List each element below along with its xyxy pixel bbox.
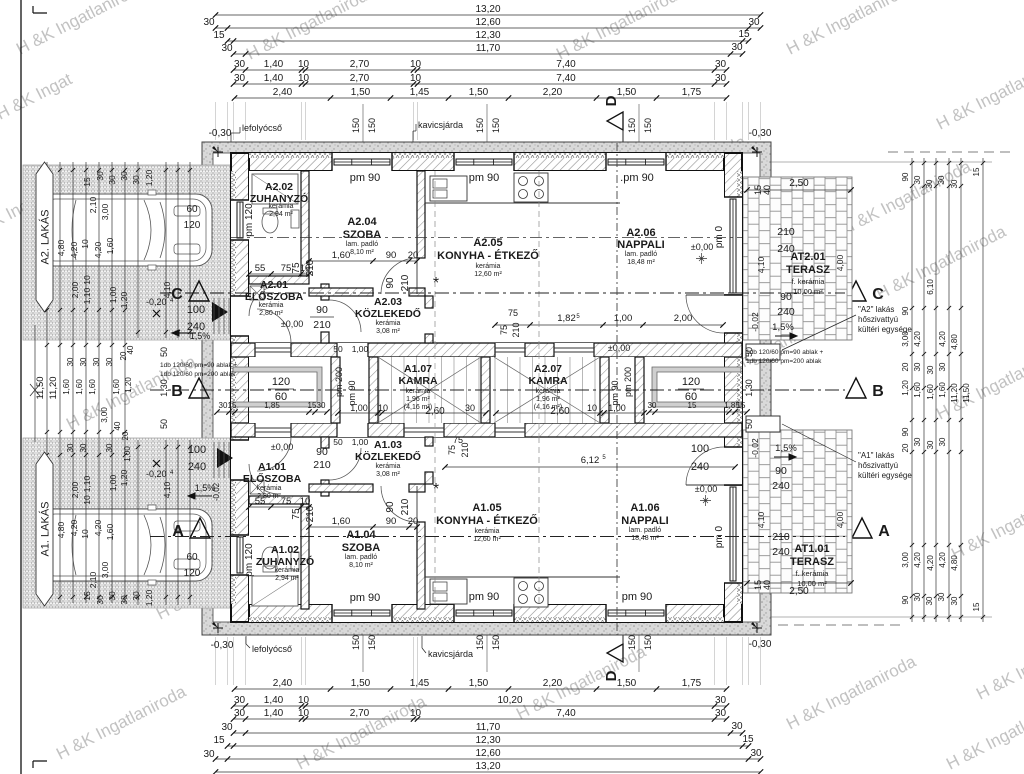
svg-text:1db 120/60 pm=200 ablak: 1db 120/60 pm=200 ablak	[160, 371, 236, 378]
svg-text:90: 90	[901, 172, 910, 181]
svg-text:40: 40	[113, 421, 122, 430]
svg-text:4,00: 4,00	[835, 254, 845, 271]
svg-text:1db 120/60 pm=90 ablak +: 1db 120/60 pm=90 ablak +	[746, 349, 824, 356]
svg-text:1,60: 1,60	[62, 379, 71, 395]
svg-text:90: 90	[386, 250, 397, 261]
svg-text:KONYHA - ÉTKEZŐ: KONYHA - ÉTKEZŐ	[437, 249, 539, 262]
svg-text:30: 30	[926, 365, 935, 374]
svg-text:10: 10	[300, 496, 311, 507]
svg-text:A1.02: A1.02	[271, 544, 299, 556]
svg-text:150: 150	[475, 118, 485, 133]
svg-text:f. kerámia: f. kerámia	[792, 277, 826, 286]
svg-text:13,20: 13,20	[475, 761, 500, 772]
svg-text:240: 240	[777, 306, 795, 318]
svg-text:15: 15	[688, 401, 697, 410]
svg-text:4,20: 4,20	[69, 519, 79, 536]
east niche	[652, 367, 741, 407]
svg-text:4,20: 4,20	[913, 552, 922, 568]
svg-text:12,60: 12,60	[475, 748, 500, 759]
svg-text:20: 20	[901, 362, 910, 371]
svg-text:150: 150	[491, 635, 501, 650]
svg-text:100: 100	[187, 304, 205, 316]
svg-text:120: 120	[184, 220, 201, 231]
car upper	[36, 190, 212, 270]
sink A1	[430, 579, 467, 604]
svg-text:240: 240	[188, 461, 206, 473]
svg-text:-0,02: -0,02	[750, 312, 760, 332]
svg-text:30: 30	[913, 437, 922, 446]
svg-text:1,00: 1,00	[123, 446, 132, 462]
svg-text:30: 30	[913, 362, 922, 371]
svg-text:1,40: 1,40	[264, 59, 284, 70]
svg-text:6,10: 6,10	[926, 279, 935, 295]
svg-text:1,40: 1,40	[264, 708, 284, 719]
svg-text:90: 90	[386, 516, 397, 527]
svg-text:30: 30	[937, 592, 946, 601]
A1 inner dims	[309, 526, 417, 528]
west niche (entry recess)	[233, 367, 322, 407]
svg-text:120: 120	[184, 568, 201, 579]
svg-text:3,00: 3,00	[100, 407, 109, 423]
svg-text:30: 30	[317, 401, 326, 410]
svg-text:1,40: 1,40	[264, 695, 284, 706]
svg-text:12,60 m²: 12,60 m²	[474, 271, 502, 278]
svg-text:30: 30	[715, 695, 727, 706]
svg-text:210: 210	[305, 505, 316, 522]
svg-text:30: 30	[938, 362, 947, 371]
svg-text:D: D	[603, 95, 620, 106]
svg-text:1,00: 1,00	[352, 437, 369, 447]
svg-text:30: 30	[203, 17, 215, 28]
svg-text:1,82: 1,82	[557, 313, 576, 324]
svg-text:3,08 m²: 3,08 m²	[376, 471, 400, 478]
svg-text:C: C	[171, 286, 183, 303]
svg-text:10: 10	[298, 708, 310, 719]
svg-text:100: 100	[691, 443, 709, 455]
svg-text:90: 90	[316, 304, 328, 316]
svg-text:12,30: 12,30	[475, 735, 500, 746]
section markers right	[846, 281, 866, 301]
svg-text:1,20: 1,20	[144, 169, 154, 186]
svg-text:1,60: 1,60	[332, 516, 351, 527]
insulation layer strips	[249, 153, 724, 158]
section line B-B	[150, 389, 845, 391]
svg-text:KAMRA: KAMRA	[398, 375, 437, 387]
svg-text:1,60: 1,60	[88, 379, 97, 395]
svg-text:A1.03: A1.03	[374, 439, 402, 451]
svg-text:1,00: 1,00	[352, 344, 369, 354]
svg-text:4,20: 4,20	[913, 331, 922, 347]
A1. LAKAS label	[36, 452, 53, 606]
sink A2	[430, 176, 467, 201]
svg-text:60: 60	[186, 204, 198, 215]
right dimension columns	[911, 158, 913, 622]
washing machine A1	[250, 480, 264, 494]
top wall windows	[332, 153, 392, 171]
svg-text:A1.04: A1.04	[346, 529, 376, 541]
svg-text:30: 30	[731, 42, 743, 53]
svg-text:2,20: 2,20	[543, 87, 563, 98]
terrace AT2.01	[743, 177, 852, 340]
svg-text:10: 10	[410, 59, 422, 70]
svg-text:1,60: 1,60	[105, 523, 115, 540]
svg-text:90: 90	[385, 501, 396, 513]
svg-text:150: 150	[351, 635, 361, 650]
svg-text:15: 15	[213, 735, 225, 746]
svg-text:120: 120	[682, 376, 700, 388]
svg-text:12,60 m²: 12,60 m²	[473, 536, 501, 543]
strip dims	[217, 411, 327, 413]
extension lines bottom	[215, 637, 217, 685]
svg-text:3,08 m²: 3,08 m²	[376, 328, 400, 335]
top dimension chains	[216, 14, 761, 16]
A2. LAKAS label	[36, 162, 53, 312]
svg-text:1,96 m²: 1,96 m²	[536, 396, 560, 403]
svg-text:A1.06: A1.06	[630, 502, 659, 514]
svg-text:1,20: 1,20	[124, 377, 133, 393]
svg-text:15: 15	[972, 167, 981, 176]
svg-text:120: 120	[272, 376, 290, 388]
svg-text:1,30: 1,30	[159, 379, 169, 397]
A2 bath fixtures	[252, 174, 298, 204]
svg-text:A1.07: A1.07	[404, 363, 432, 375]
svg-text:pm 90: pm 90	[350, 592, 381, 604]
svg-text:13,20: 13,20	[475, 4, 500, 15]
svg-text:1,10: 1,10	[82, 287, 92, 304]
svg-text:30: 30	[234, 59, 246, 70]
svg-text:7,40: 7,40	[556, 59, 576, 70]
svg-text:10: 10	[82, 495, 92, 505]
right extension lines	[770, 161, 992, 163]
svg-text:2,50: 2,50	[789, 586, 809, 597]
svg-text:A2.05: A2.05	[473, 237, 502, 249]
svg-text:15: 15	[738, 29, 750, 40]
svg-text:1,75: 1,75	[682, 678, 702, 689]
svg-text:-0,30: -0,30	[749, 639, 772, 650]
svg-text:30: 30	[715, 708, 727, 719]
svg-text:240: 240	[772, 480, 790, 492]
svg-text:50: 50	[744, 419, 754, 429]
svg-text:±0,00: ±0,00	[691, 242, 713, 252]
svg-text:210: 210	[305, 259, 316, 276]
kamra A2.07 stairs	[494, 357, 496, 423]
svg-text:15: 15	[737, 401, 746, 410]
svg-text:1,20: 1,20	[901, 380, 910, 396]
svg-text:30: 30	[95, 595, 105, 605]
svg-text:55: 55	[255, 263, 266, 274]
svg-text:*: *	[433, 275, 439, 292]
svg-text:A1.05: A1.05	[472, 502, 501, 514]
svg-text:30: 30	[131, 175, 141, 185]
svg-text:1,60: 1,60	[332, 250, 351, 261]
svg-text:18,48 m²: 18,48 m²	[627, 259, 655, 266]
svg-text:10: 10	[82, 275, 92, 285]
svg-text:-0,30: -0,30	[211, 640, 234, 651]
svg-text:10,20: 10,20	[497, 695, 522, 706]
svg-text:210: 210	[511, 322, 521, 337]
svg-text:1db 120/60 pm=200 ablak: 1db 120/60 pm=200 ablak	[746, 358, 822, 365]
svg-text:1,30: 1,30	[744, 379, 754, 397]
svg-text:kavicsjárda: kavicsjárda	[418, 120, 463, 130]
svg-text:1,45: 1,45	[410, 87, 430, 98]
svg-text:±0,00: ±0,00	[695, 484, 717, 494]
svg-text:1,60: 1,60	[105, 237, 115, 254]
svg-text:90: 90	[901, 427, 910, 436]
svg-text:pm 200: pm 200	[334, 367, 344, 397]
svg-text:75: 75	[447, 445, 457, 455]
svg-text:NAPPALI: NAPPALI	[617, 239, 664, 251]
svg-text:50: 50	[333, 344, 343, 354]
svg-text:1,10: 1,10	[82, 475, 92, 492]
svg-text:30: 30	[105, 443, 114, 452]
svg-text:1db 120/60 pm=90 ablak +: 1db 120/60 pm=90 ablak +	[160, 362, 238, 369]
svg-text:-0,30: -0,30	[749, 128, 772, 139]
svg-text:AT1.01: AT1.01	[794, 543, 829, 555]
svg-text:30: 30	[925, 596, 934, 605]
svg-text:75: 75	[291, 262, 302, 274]
svg-text:30: 30	[79, 357, 88, 366]
svg-text:AT2.01: AT2.01	[790, 251, 825, 263]
svg-text:7,40: 7,40	[556, 73, 576, 84]
svg-text:pm 90: pm 90	[622, 591, 653, 603]
svg-text:A1. LAKÁS: A1. LAKÁS	[39, 501, 52, 556]
svg-text:1,85: 1,85	[264, 401, 280, 410]
svg-text:KAMRA: KAMRA	[528, 375, 567, 387]
driveway paving upper (A2)	[23, 165, 231, 340]
svg-text:6,12: 6,12	[581, 455, 600, 466]
left dimension verticals full height	[46, 162, 48, 603]
svg-text:4,20: 4,20	[69, 241, 79, 258]
svg-text:KONYHA - ÉTKEZŐ: KONYHA - ÉTKEZŐ	[436, 514, 538, 527]
svg-text:pm 120: pm 120	[244, 203, 255, 237]
svg-text:2,94 m²: 2,94 m²	[275, 575, 299, 582]
svg-text:20: 20	[901, 443, 910, 452]
svg-text:210: 210	[400, 274, 411, 291]
svg-text:1,96 m²: 1,96 m²	[406, 396, 430, 403]
svg-text:4,10: 4,10	[756, 511, 766, 528]
svg-text:4,20: 4,20	[938, 552, 947, 568]
svg-text:2,00: 2,00	[70, 281, 80, 298]
svg-text:11,70: 11,70	[476, 43, 501, 54]
svg-text:-0,30: -0,30	[209, 128, 232, 139]
svg-text:30: 30	[234, 708, 246, 719]
svg-text:A2.01: A2.01	[260, 279, 288, 291]
svg-text:kerámia: kerámia	[259, 302, 284, 309]
A2 inner dims	[309, 260, 417, 262]
svg-text:pm 90: pm 90	[469, 591, 500, 603]
svg-text:30: 30	[119, 595, 129, 605]
svg-text:2,70: 2,70	[350, 59, 370, 70]
svg-text:2,10: 2,10	[88, 571, 98, 588]
svg-text:30: 30	[66, 357, 75, 366]
svg-text:f. kerámia: f. kerámia	[796, 569, 830, 578]
top 150 drain marks	[362, 104, 364, 156]
svg-text:A: A	[878, 523, 890, 540]
svg-text:3,00: 3,00	[901, 552, 910, 568]
right wall: terrace windows/doors	[724, 197, 742, 295]
svg-text:D: D	[603, 670, 620, 681]
svg-text:1,00: 1,00	[614, 313, 633, 324]
svg-text:lam. padló: lam. padló	[629, 527, 661, 534]
svg-text:50: 50	[159, 347, 169, 357]
svg-text:4,00: 4,00	[835, 511, 845, 528]
A2 kitchen counter	[425, 202, 620, 204]
svg-text:40: 40	[762, 185, 772, 195]
svg-text:1,60: 1,60	[913, 382, 922, 398]
svg-text:30: 30	[107, 591, 117, 601]
svg-text:A2.03: A2.03	[374, 296, 402, 308]
svg-text:4,20: 4,20	[93, 519, 103, 536]
svg-text:10: 10	[410, 708, 422, 719]
svg-text:8,10 m²: 8,10 m²	[349, 562, 373, 569]
svg-text:kerámia: kerámia	[376, 320, 401, 327]
svg-text:2,94 m²: 2,94 m²	[269, 211, 293, 218]
svg-text:A: A	[172, 523, 184, 540]
svg-text:30: 30	[648, 401, 657, 410]
svg-text:30: 30	[950, 179, 959, 188]
svg-text:75: 75	[281, 496, 292, 507]
svg-text:3,00: 3,00	[100, 561, 110, 578]
svg-text:1,50: 1,50	[351, 87, 371, 98]
svg-text:3,00: 3,00	[100, 203, 110, 220]
svg-text:4,80: 4,80	[950, 334, 959, 350]
svg-text:30: 30	[234, 73, 246, 84]
svg-text:10: 10	[587, 403, 597, 413]
svg-text:150: 150	[643, 118, 653, 133]
svg-text:kerámia: kerámia	[476, 263, 501, 270]
svg-text:90: 90	[775, 465, 787, 477]
stove A1	[514, 578, 548, 607]
svg-text:20: 20	[121, 431, 130, 440]
svg-text:150: 150	[627, 635, 637, 650]
svg-text:30: 30	[131, 591, 141, 601]
svg-text:kültéri egysége: kültéri egysége	[858, 471, 912, 480]
svg-text:SZOBA: SZOBA	[343, 229, 382, 241]
svg-text:pm 90: pm 90	[347, 380, 357, 405]
section markers left	[189, 281, 209, 301]
svg-text:30: 30	[913, 175, 922, 184]
svg-text:15: 15	[213, 30, 225, 41]
entry steps outside	[213, 298, 215, 334]
washing machine A2	[250, 286, 264, 300]
svg-text:B: B	[171, 383, 183, 400]
A1 door arcs	[381, 486, 417, 522]
svg-text:11,20: 11,20	[950, 383, 959, 403]
svg-text:kerámia: kerámia	[376, 463, 401, 470]
svg-text:10: 10	[298, 73, 310, 84]
svg-text:1,5%: 1,5%	[772, 322, 794, 333]
svg-text:30: 30	[79, 443, 88, 452]
svg-text:11,50: 11,50	[962, 383, 971, 403]
svg-text:.pm 90: .pm 90	[620, 172, 654, 184]
svg-text:lam. padló: lam. padló	[625, 251, 657, 258]
svg-text:pm 90: pm 90	[610, 380, 620, 405]
svg-text:100: 100	[188, 444, 206, 456]
svg-text:"A1" lakás: "A1" lakás	[858, 451, 894, 460]
svg-text:30: 30	[715, 73, 727, 84]
svg-text:90: 90	[316, 446, 328, 458]
svg-text:15: 15	[82, 591, 92, 601]
svg-text:4,20: 4,20	[926, 555, 935, 571]
svg-text:1,00: 1,00	[108, 474, 118, 491]
A1 bath fixtures	[252, 576, 298, 606]
svg-text:150: 150	[367, 635, 377, 650]
svg-text:150: 150	[367, 118, 377, 133]
svg-text:KÖZLEKEDŐ: KÖZLEKEDŐ	[355, 450, 421, 463]
section D marker top	[607, 112, 623, 130]
svg-text:2,40: 2,40	[273, 87, 293, 98]
svg-text:4,80: 4,80	[56, 521, 66, 538]
svg-text:240: 240	[772, 546, 790, 558]
svg-text:15: 15	[228, 401, 237, 410]
svg-text:A2.07: A2.07	[534, 363, 562, 375]
kamra A1.07 stairs	[378, 357, 380, 423]
svg-text:8,10 m²: 8,10 m²	[350, 249, 374, 256]
section line C-C	[160, 292, 845, 294]
svg-text:90: 90	[901, 306, 910, 315]
svg-text:210: 210	[777, 226, 795, 238]
stove A2	[514, 173, 548, 202]
svg-text:75: 75	[499, 325, 509, 335]
svg-text:30: 30	[913, 592, 922, 601]
svg-text:-0,02: -0,02	[212, 482, 221, 501]
svg-text:15: 15	[972, 602, 981, 611]
heat pump units	[746, 344, 780, 360]
left wall windows/doors	[231, 200, 249, 240]
svg-text:ELŐSZOBA: ELŐSZOBA	[243, 472, 302, 485]
svg-text:1,60: 1,60	[75, 379, 84, 395]
extension lines top	[215, 102, 217, 140]
svg-text:50: 50	[159, 419, 169, 429]
svg-text:B: B	[872, 383, 884, 400]
svg-text:75: 75	[281, 263, 292, 274]
svg-text:C: C	[872, 286, 884, 303]
svg-text:210: 210	[313, 459, 331, 471]
svg-text:30: 30	[119, 171, 129, 181]
svg-text:A2.04: A2.04	[347, 216, 377, 228]
page corner marks	[33, 6, 47, 13]
svg-text:kerámia: kerámia	[275, 567, 300, 574]
svg-text:kerámia: kerámia	[269, 203, 294, 210]
svg-text:A2. LAKÁS: A2. LAKÁS	[39, 209, 52, 264]
svg-text:2,50: 2,50	[789, 178, 809, 189]
svg-text:10: 10	[80, 239, 90, 249]
svg-text:40: 40	[762, 580, 772, 590]
section D marker bottom	[607, 644, 623, 662]
A1 north wall	[231, 423, 742, 437]
svg-text:1,20: 1,20	[119, 469, 129, 486]
svg-text:±0,00: ±0,00	[271, 442, 293, 452]
svg-text:1,75: 1,75	[682, 87, 702, 98]
svg-text:30: 30	[203, 749, 215, 760]
svg-text:pm 90: pm 90	[469, 172, 500, 184]
svg-text:2,70: 2,70	[350, 708, 370, 719]
svg-text:1,00: 1,00	[108, 286, 118, 303]
svg-text:30: 30	[465, 403, 475, 413]
svg-text:15: 15	[82, 177, 92, 187]
svg-text:40: 40	[126, 345, 135, 354]
svg-text:240: 240	[777, 243, 795, 255]
bottom 150 drain marks	[362, 618, 364, 672]
strip opening glazing	[255, 347, 291, 349]
svg-text:lam. padló: lam. padló	[346, 241, 378, 248]
svg-text:2,00: 2,00	[674, 313, 693, 324]
svg-text:kerámia: kerámia	[257, 485, 282, 492]
svg-text:55: 55	[255, 496, 266, 507]
car lower	[36, 505, 212, 585]
section line A-A	[150, 536, 845, 538]
svg-text:30: 30	[950, 596, 959, 605]
